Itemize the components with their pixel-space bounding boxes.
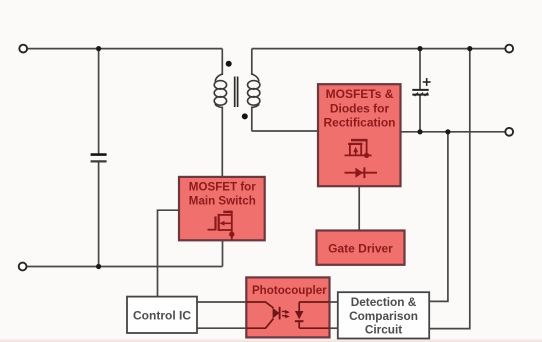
wire top input rail — [27, 48, 222, 50]
wire T1 primary top lead — [221, 49, 223, 75]
terminal input top — [19, 45, 27, 53]
svg-text:Rectification: Rectification — [323, 116, 395, 130]
terminal input bottom — [19, 263, 27, 271]
photocoupler light arrows — [282, 310, 290, 318]
svg-text:Diodes for: Diodes for — [330, 101, 390, 115]
wire photocoupler to detection block bottom — [330, 327, 339, 329]
svg-text:Photocoupler: Photocoupler — [252, 284, 327, 297]
junction input rail to C1 — [96, 46, 101, 51]
svg-text:MOSFET for: MOSFET for — [189, 180, 256, 193]
junction bottom rail to C1 — [96, 264, 101, 269]
wire rectifier output rail — [400, 131, 505, 133]
block MOSFET for Main Switch — [179, 177, 265, 240]
wire T1 primary to main switch drain — [221, 107, 223, 177]
block Photocoupler — [246, 277, 329, 337]
photocoupler LED — [246, 302, 279, 328]
diode symbol in rectification block — [345, 167, 378, 178]
photocoupler photodiode — [295, 302, 304, 328]
wire C1 bottom lead — [98, 162, 100, 267]
transformer T1 primary winding — [214, 74, 226, 108]
wire T1 secondary top lead — [251, 49, 253, 75]
junction output top rail to C2 — [417, 46, 422, 51]
photocoupler internal wire to output top — [299, 301, 329, 303]
wire output cap C2 bottom lead — [419, 96, 421, 132]
wire C1 top lead — [98, 49, 100, 154]
svg-text:Control IC: Control IC — [133, 308, 191, 322]
wire sense line from output plus rail — [429, 49, 470, 329]
transformer T1 secondary winding — [248, 74, 260, 108]
MOSFET symbol in main switch block — [208, 212, 235, 240]
wire sense line from output rail — [429, 132, 448, 302]
junction output rail to C2 — [417, 129, 422, 134]
block Detection & Comparison Circuit — [338, 292, 429, 338]
svg-text:Detection &: Detection & — [351, 295, 417, 309]
junction output rail to sense — [445, 129, 450, 134]
svg-text:Gate Driver: Gate Driver — [328, 241, 393, 255]
transformer T1 polarity dot primary — [226, 61, 232, 67]
wire photocoupler to detection block top — [330, 301, 339, 303]
capacitor C2 output electrolytic cap — [412, 78, 430, 96]
terminal output bottom — [505, 128, 513, 136]
transformer T1 core — [235, 77, 238, 108]
block MOSFETs & Diodes for Rectification — [318, 84, 401, 186]
MOSFET symbol in rectification block — [345, 140, 372, 158]
capacitor C1 input bulk cap — [91, 155, 107, 162]
svg-text:Main Switch: Main Switch — [189, 195, 256, 208]
terminal output top — [505, 45, 513, 53]
wire control IC to photocoupler bottom — [197, 327, 246, 329]
wire main switch source to bottom rail — [222, 240, 224, 267]
wire rectifier block to gate driver — [358, 186, 360, 230]
wire output cap C2 top lead — [419, 49, 421, 89]
wire secondary bottom to rectifier input — [252, 130, 319, 132]
wire bottom input rail — [27, 266, 223, 268]
photocoupler internal wire to output bottom — [299, 327, 329, 329]
svg-text:MOSFETs &: MOSFETs & — [326, 87, 394, 101]
svg-text:Comparison: Comparison — [349, 309, 418, 323]
wire T1 secondary bottom lead — [251, 107, 253, 132]
wire secondary top rail — [252, 48, 506, 50]
junction output top rail to sense — [467, 46, 472, 51]
block Control IC — [127, 297, 197, 333]
transformer T1 polarity dot secondary — [242, 113, 248, 119]
wire gate node: main switch gate to control IC — [158, 210, 180, 296]
svg-text:Circuit: Circuit — [365, 322, 402, 336]
block Gate Driver — [317, 231, 405, 265]
wire control IC to photocoupler top — [197, 301, 246, 303]
